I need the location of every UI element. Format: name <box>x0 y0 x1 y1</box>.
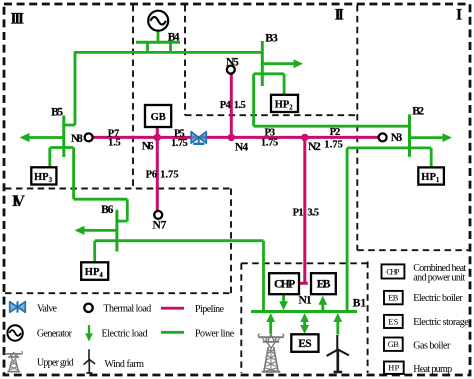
svg-text:1.75: 1.75 <box>171 138 188 149</box>
svg-text:Pipeline: Pipeline <box>195 304 225 315</box>
svg-text:B2: B2 <box>412 106 424 118</box>
svg-text:Thermal load: Thermal load <box>103 304 151 315</box>
svg-text:IV: IV <box>12 193 25 210</box>
svg-text:N1: N1 <box>299 295 312 307</box>
svg-text:CHP: CHP <box>386 267 400 276</box>
svg-text:Wind farm: Wind farm <box>105 359 145 370</box>
svg-text:B5: B5 <box>51 106 63 118</box>
svg-text:I: I <box>456 7 462 24</box>
svg-text:B1: B1 <box>353 298 367 310</box>
svg-text:N2: N2 <box>308 141 321 153</box>
svg-text:Electric load: Electric load <box>102 329 148 340</box>
svg-text:Upper grid: Upper grid <box>37 358 74 369</box>
svg-text:HP: HP <box>388 363 399 372</box>
svg-text:B3: B3 <box>265 32 278 44</box>
svg-text:B6: B6 <box>101 204 114 216</box>
svg-text:Generator: Generator <box>37 329 73 340</box>
svg-text:ES: ES <box>388 317 398 326</box>
svg-text:1.75: 1.75 <box>261 138 278 149</box>
svg-text:P2: P2 <box>330 127 341 138</box>
svg-text:III: III <box>10 10 24 27</box>
svg-text:P6: P6 <box>146 170 158 181</box>
svg-text:N7: N7 <box>153 220 167 232</box>
svg-text:B4: B4 <box>168 31 180 43</box>
svg-text:N5: N5 <box>226 57 239 69</box>
svg-text:EB: EB <box>388 294 398 303</box>
svg-text:Electric storage: Electric storage <box>413 317 469 328</box>
svg-text:II: II <box>335 7 345 24</box>
svg-text:and power unit: and power unit <box>413 273 465 284</box>
svg-text:ES: ES <box>298 338 311 350</box>
svg-text:1.5: 1.5 <box>234 100 246 111</box>
svg-text:1.75: 1.75 <box>160 170 179 181</box>
svg-text:N8: N8 <box>71 133 83 145</box>
svg-text:Valve: Valve <box>37 303 58 314</box>
svg-text:1.5: 1.5 <box>108 138 121 149</box>
svg-text:CHP: CHP <box>274 279 295 291</box>
svg-text:N3: N3 <box>391 132 403 144</box>
svg-text:Heat pump: Heat pump <box>413 364 452 375</box>
svg-text:Electric boiler: Electric boiler <box>413 293 463 304</box>
svg-text:P4: P4 <box>220 100 232 111</box>
svg-text:1.75: 1.75 <box>324 140 343 151</box>
svg-text:EB: EB <box>317 279 331 291</box>
svg-text:Gas boiler: Gas boiler <box>413 341 451 352</box>
svg-text:N6: N6 <box>142 140 154 152</box>
svg-text:P1: P1 <box>293 208 304 219</box>
svg-text:GB: GB <box>388 340 399 349</box>
svg-text:N4: N4 <box>235 142 248 154</box>
svg-text:Power line: Power line <box>195 329 235 340</box>
svg-text:3.5: 3.5 <box>307 208 319 219</box>
svg-text:GB: GB <box>151 112 166 123</box>
